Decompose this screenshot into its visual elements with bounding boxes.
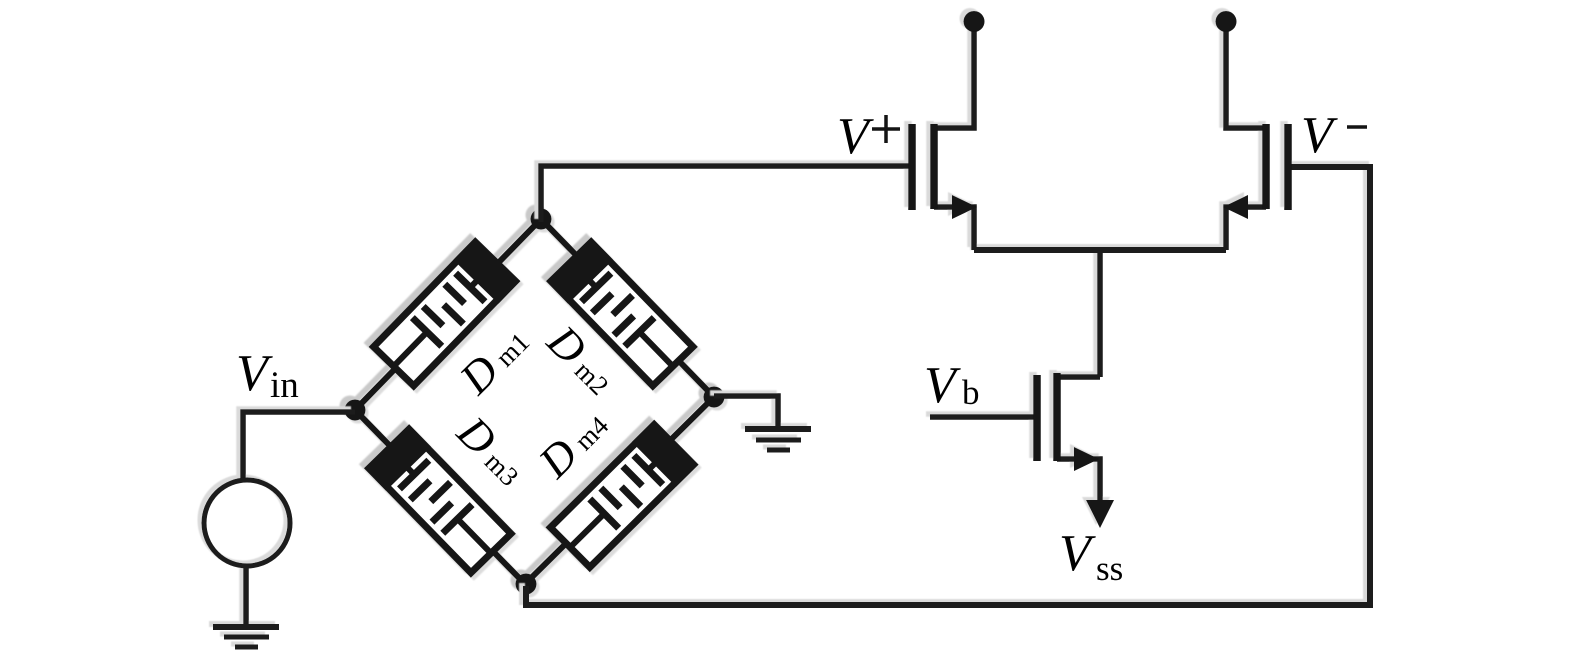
svg-text:V: V (924, 357, 961, 414)
svg-text:V: V (1059, 525, 1096, 582)
svg-text:m1: m1 (490, 327, 536, 373)
svg-text:in: in (270, 365, 299, 406)
svg-text:b: b (962, 373, 980, 412)
svg-text:m2: m2 (569, 355, 615, 401)
svg-text:V: V (1301, 107, 1338, 164)
svg-text:m3: m3 (479, 446, 525, 492)
svg-text:V: V (236, 345, 273, 402)
svg-text:m4: m4 (569, 410, 615, 456)
svg-text:ss: ss (1096, 549, 1123, 588)
svg-text:V: V (837, 108, 874, 165)
